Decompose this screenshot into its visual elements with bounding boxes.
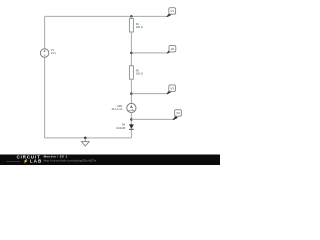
wire bottom horizontal bbox=[45, 137, 132, 139]
wire ammeter to node D bbox=[130, 112, 132, 124]
svg-text:100 Ω: 100 Ω bbox=[136, 72, 143, 76]
flag node V4 bbox=[173, 110, 182, 120]
node B junction dot bbox=[130, 52, 133, 55]
wire left vertical lower bbox=[44, 57, 46, 138]
wire node B to flag V2 bbox=[131, 52, 167, 54]
svg-text:V1: V1 bbox=[171, 9, 175, 13]
svg-text:V4: V4 bbox=[176, 111, 180, 115]
wire R1 to R2 bbox=[130, 32, 132, 66]
resistor R2 bbox=[129, 66, 142, 79]
wire left vertical upper bbox=[44, 16, 46, 48]
svg-text:V2: V2 bbox=[171, 47, 175, 51]
footer bar bbox=[0, 155, 220, 166]
ammeter AM1 bbox=[111, 103, 136, 112]
node A junction dot bbox=[130, 15, 133, 18]
flag node V3 bbox=[166, 85, 175, 94]
voltage source V1 bbox=[40, 48, 56, 57]
svg-text:10 V: 10 V bbox=[51, 51, 57, 55]
node C junction dot bbox=[130, 92, 133, 95]
flag node V2 bbox=[167, 45, 176, 53]
node D junction dot bbox=[130, 118, 133, 121]
svg-text:∼∼∼∼∼: ∼∼∼∼∼ bbox=[7, 159, 21, 163]
svg-text:V3: V3 bbox=[171, 86, 175, 90]
wire top horizontal bbox=[45, 15, 167, 17]
wire node D to flag V4 bbox=[131, 118, 173, 120]
wire R2 to ammeter bbox=[130, 79, 132, 103]
diode D4 bbox=[116, 123, 134, 138]
svg-text:A: A bbox=[130, 105, 133, 109]
ground bbox=[81, 137, 89, 146]
wire node C to flag V3 bbox=[131, 93, 166, 95]
svg-text:1N4148: 1N4148 bbox=[116, 126, 126, 130]
resistor R1 bbox=[129, 16, 142, 32]
svg-text:100 Ω: 100 Ω bbox=[136, 25, 143, 29]
flag node V1 bbox=[166, 8, 175, 17]
svg-text:http://circuitlab.com/c/pkg/25: http://circuitlab.com/c/pkg/25x4j37a bbox=[44, 158, 97, 162]
footer logo CIRCUIT LAB bbox=[7, 155, 43, 165]
svg-text:46.11 mA: 46.11 mA bbox=[111, 107, 122, 111]
